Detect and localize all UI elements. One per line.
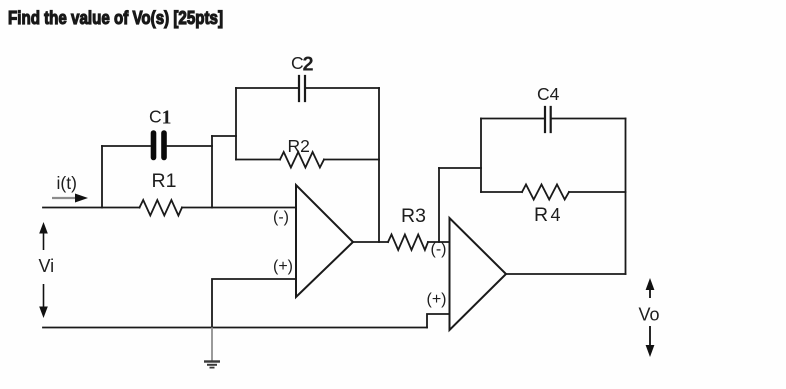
resistor R4 [522,185,569,200]
op-amp U2 [450,218,507,330]
resistor R2 [280,152,324,168]
svg-text:(+): (+) [427,291,447,308]
svg-text:Vo: Vo [639,305,660,325]
wire C2 top [236,87,379,89]
Vo down arrow [646,326,655,357]
wire op-amp U2 output [506,273,626,275]
wire C4 top [481,118,626,120]
current arrow i(t) [52,194,88,203]
wire C1 branch left vertical [101,146,103,208]
svg-text:Vi: Vi [39,256,55,276]
svg-text:C4: C4 [537,84,560,104]
capacitor C1 [154,133,165,158]
wire stub node A to feedback loop [212,135,236,137]
wire bottom rail [43,327,427,329]
svg-text:i(t): i(t) [57,173,77,193]
wire op-amp U1 output [353,241,450,243]
capacitor C4 [545,107,551,132]
op-amp U1 [296,185,353,297]
wire C1 branch top [102,145,212,147]
resistor R1 [140,200,183,216]
resistor R3 [388,235,428,251]
wire op-amp U1 noninverting input [212,279,296,328]
svg-text:4: 4 [551,205,561,225]
svg-text:(+): (+) [273,258,293,275]
wire C2/R2 loop left vertical [235,88,237,160]
wire R4 bottom [481,191,626,193]
wire C4/R4 loop left vertical [480,119,482,193]
wire feedback stub to C4/R4 loop [439,167,481,169]
wire R2 bottom [236,159,379,161]
ground [204,328,220,368]
svg-text:(-): (-) [273,209,289,226]
svg-text:R3: R3 [401,205,426,227]
Vi up arrow [39,222,48,250]
wire feedback tap vertical [438,168,440,242]
wire C2/R2 loop right vertical [378,88,380,242]
svg-text:R: R [534,204,548,226]
Vi down arrow [39,284,48,318]
capacitor C2 [299,76,305,101]
node A vertical at x=212 [211,136,213,208]
svg-text:2: 2 [303,54,314,76]
Vo up arrow [646,278,655,298]
svg-text:(-): (-) [431,241,447,258]
svg-text:C: C [149,107,162,127]
wire C4/R4 loop right vertical [625,119,627,275]
wire input top rail [43,207,296,209]
svg-text:Find the value of Vo(s) [25pts: Find the value of Vo(s) [25pts] [8,7,223,28]
svg-text:R1: R1 [152,170,177,192]
wire op-amp U2 noninverting step [427,314,450,328]
svg-text:1: 1 [162,107,172,129]
svg-text:R2: R2 [288,136,310,156]
